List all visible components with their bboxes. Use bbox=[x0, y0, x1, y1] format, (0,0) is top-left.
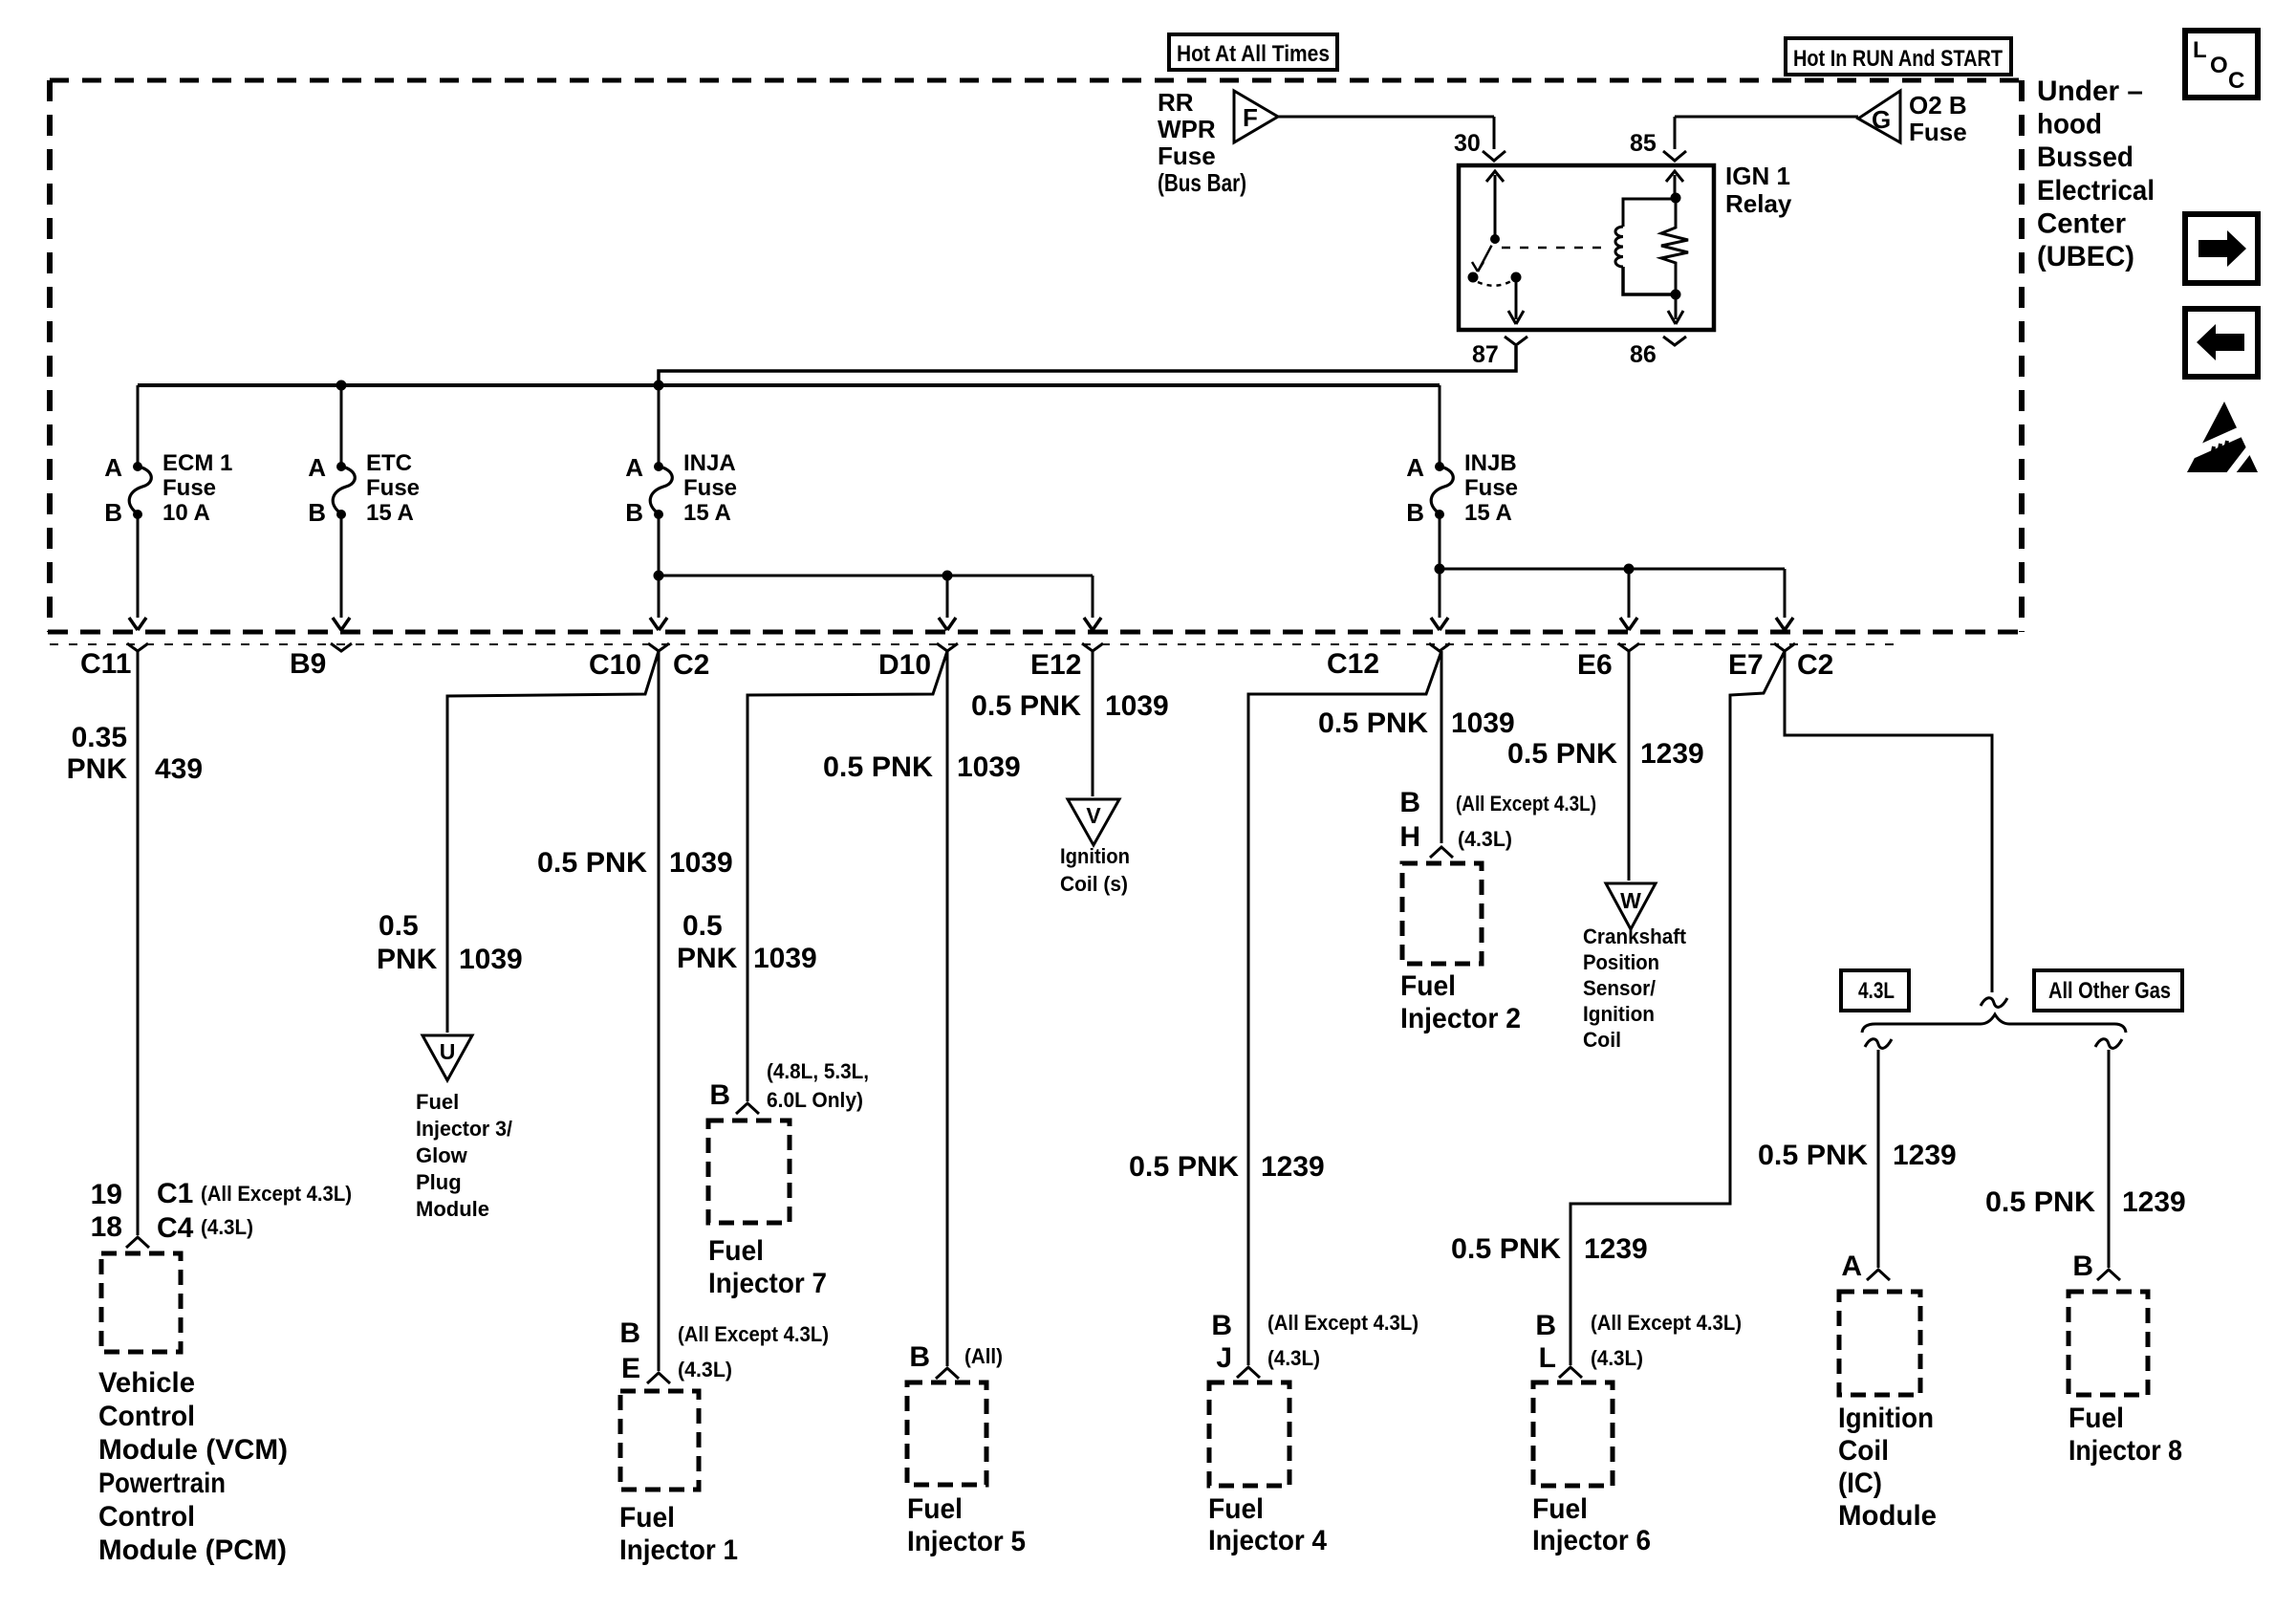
svg-text:Ignition: Ignition bbox=[1060, 844, 1130, 868]
svg-text:E: E bbox=[621, 1353, 640, 1384]
svg-text:G: G bbox=[1872, 105, 1891, 134]
svg-text:15 A: 15 A bbox=[683, 500, 731, 526]
svg-text:W: W bbox=[1620, 888, 1641, 913]
svg-text:18: 18 bbox=[91, 1211, 122, 1243]
svg-text:ETC: ETC bbox=[366, 450, 412, 476]
svg-text:10 A: 10 A bbox=[162, 500, 210, 526]
svg-text:1239: 1239 bbox=[1261, 1151, 1325, 1183]
svg-text:Fuel: Fuel bbox=[619, 1502, 675, 1534]
svg-text:Module (PCM): Module (PCM) bbox=[98, 1534, 287, 1566]
svg-text:Under –: Under – bbox=[2037, 76, 2143, 107]
svg-text:Coil (s): Coil (s) bbox=[1060, 872, 1128, 896]
svg-text:IGN 1: IGN 1 bbox=[1725, 162, 1790, 190]
svg-text:Plug: Plug bbox=[416, 1170, 462, 1194]
svg-text:Injector 4: Injector 4 bbox=[1208, 1525, 1327, 1556]
svg-text:U: U bbox=[440, 1039, 456, 1064]
svg-text:C12: C12 bbox=[1327, 648, 1379, 680]
svg-text:C2: C2 bbox=[1797, 649, 1833, 681]
svg-text:Injector 6: Injector 6 bbox=[1532, 1525, 1651, 1556]
svg-text:0.5: 0.5 bbox=[682, 910, 723, 942]
svg-text:PNK: PNK bbox=[377, 944, 438, 975]
svg-text:(Bus Bar): (Bus Bar) bbox=[1158, 168, 1246, 197]
svg-text:Fuel: Fuel bbox=[708, 1235, 764, 1267]
svg-text:0.5 PNK: 0.5 PNK bbox=[1129, 1151, 1239, 1183]
svg-text:Fuse: Fuse bbox=[1909, 118, 1967, 146]
svg-text:Fuel: Fuel bbox=[1400, 970, 1456, 1002]
svg-text:A: A bbox=[625, 453, 643, 482]
svg-text:19: 19 bbox=[91, 1179, 122, 1210]
svg-text:Glow: Glow bbox=[416, 1143, 468, 1167]
svg-text:439: 439 bbox=[155, 753, 203, 785]
svg-text:Fuel: Fuel bbox=[416, 1090, 459, 1114]
svg-text:B: B bbox=[625, 498, 643, 527]
svg-text:B: B bbox=[709, 1079, 730, 1111]
svg-text:1039: 1039 bbox=[957, 751, 1021, 783]
svg-text:85: 85 bbox=[1630, 130, 1657, 157]
svg-text:hood: hood bbox=[2037, 109, 2102, 141]
svg-text:0.5 PNK: 0.5 PNK bbox=[1318, 707, 1428, 739]
svg-text:(4.3L): (4.3L) bbox=[1458, 827, 1512, 851]
svg-text:A: A bbox=[104, 453, 122, 482]
svg-text:Fuse: Fuse bbox=[366, 475, 420, 501]
svg-text:PNK: PNK bbox=[677, 943, 738, 974]
svg-text:L: L bbox=[1539, 1342, 1556, 1374]
svg-text:Vehicle: Vehicle bbox=[98, 1367, 195, 1399]
svg-text:Coil: Coil bbox=[1583, 1028, 1621, 1052]
svg-text:(4.3L): (4.3L) bbox=[201, 1215, 253, 1239]
svg-text:C11: C11 bbox=[80, 648, 131, 680]
svg-text:30: 30 bbox=[1454, 130, 1481, 157]
svg-text:E12: E12 bbox=[1030, 649, 1081, 681]
svg-text:(All Except 4.3L): (All Except 4.3L) bbox=[678, 1322, 829, 1346]
svg-text:B: B bbox=[619, 1317, 640, 1349]
svg-text:J: J bbox=[1216, 1342, 1232, 1374]
svg-text:0.5 PNK: 0.5 PNK bbox=[1507, 738, 1617, 770]
svg-text:Fuse: Fuse bbox=[1158, 141, 1216, 170]
svg-text:Position: Position bbox=[1583, 950, 1659, 974]
svg-text:0.5 PNK: 0.5 PNK bbox=[1451, 1233, 1561, 1265]
svg-text:87: 87 bbox=[1472, 341, 1499, 368]
svg-text:RR: RR bbox=[1158, 88, 1194, 117]
svg-text:Fuel: Fuel bbox=[1532, 1493, 1588, 1525]
svg-text:F: F bbox=[1243, 103, 1258, 132]
svg-text:Electrical: Electrical bbox=[2037, 175, 2155, 207]
svg-text:C10: C10 bbox=[589, 649, 641, 681]
svg-text:1039: 1039 bbox=[753, 943, 817, 974]
svg-text:INJB: INJB bbox=[1464, 450, 1517, 476]
svg-text:B: B bbox=[1211, 1310, 1232, 1341]
svg-text:A: A bbox=[1841, 1251, 1862, 1282]
svg-text:Fuse: Fuse bbox=[683, 475, 737, 501]
svg-text:1239: 1239 bbox=[2122, 1186, 2186, 1218]
svg-text:1039: 1039 bbox=[459, 944, 523, 975]
svg-text:Injector 7: Injector 7 bbox=[708, 1268, 827, 1299]
svg-text:Injector 5: Injector 5 bbox=[907, 1526, 1026, 1557]
svg-text:6.0L Only): 6.0L Only) bbox=[767, 1088, 863, 1112]
svg-text:Relay: Relay bbox=[1725, 189, 1792, 218]
svg-text:B: B bbox=[909, 1341, 930, 1373]
svg-text:(All Except 4.3L): (All Except 4.3L) bbox=[1267, 1311, 1419, 1335]
svg-text:C: C bbox=[2228, 68, 2244, 94]
svg-text:A: A bbox=[1406, 453, 1424, 482]
svg-text:1239: 1239 bbox=[1893, 1140, 1957, 1171]
svg-text:B: B bbox=[104, 498, 122, 527]
svg-text:15 A: 15 A bbox=[1464, 500, 1512, 526]
svg-text:Injector 1: Injector 1 bbox=[619, 1534, 738, 1566]
svg-text:V: V bbox=[1086, 803, 1101, 828]
svg-text:O: O bbox=[2210, 53, 2228, 78]
svg-text:86: 86 bbox=[1630, 341, 1657, 368]
svg-text:1239: 1239 bbox=[1640, 738, 1704, 770]
svg-text:Fuse: Fuse bbox=[162, 475, 216, 501]
svg-text:A: A bbox=[308, 453, 326, 482]
svg-text:15 A: 15 A bbox=[366, 500, 414, 526]
svg-text:0.5 PNK: 0.5 PNK bbox=[537, 847, 647, 879]
svg-text:Ignition: Ignition bbox=[1838, 1403, 1934, 1434]
svg-text:ECM 1: ECM 1 bbox=[162, 450, 232, 476]
svg-text:Fuse: Fuse bbox=[1464, 475, 1518, 501]
svg-text:C2: C2 bbox=[673, 649, 709, 681]
svg-text:Module: Module bbox=[1838, 1500, 1937, 1532]
svg-text:B: B bbox=[1399, 787, 1420, 818]
svg-text:(UBEC): (UBEC) bbox=[2037, 241, 2134, 272]
svg-text:Fuel: Fuel bbox=[907, 1493, 963, 1525]
svg-text:0.5 PNK: 0.5 PNK bbox=[971, 690, 1081, 722]
svg-text:Module: Module bbox=[416, 1197, 489, 1221]
svg-text:Injector 8: Injector 8 bbox=[2069, 1435, 2182, 1467]
svg-text:H: H bbox=[1399, 821, 1420, 853]
svg-text:Ignition: Ignition bbox=[1583, 1002, 1655, 1026]
svg-text:B: B bbox=[1406, 498, 1424, 527]
svg-text:Fuel: Fuel bbox=[2069, 1403, 2124, 1434]
svg-text:PNK: PNK bbox=[67, 753, 128, 785]
svg-text:Control: Control bbox=[98, 1401, 195, 1432]
svg-text:Hot In RUN And START: Hot In RUN And START bbox=[1793, 46, 2003, 72]
svg-text:4.3L: 4.3L bbox=[1858, 978, 1895, 1004]
svg-text:Sensor/: Sensor/ bbox=[1583, 976, 1656, 1000]
svg-text:C4: C4 bbox=[157, 1212, 194, 1244]
svg-text:B9: B9 bbox=[290, 648, 326, 680]
svg-text:0.5 PNK: 0.5 PNK bbox=[823, 751, 933, 783]
svg-text:All Other Gas: All Other Gas bbox=[2048, 978, 2171, 1004]
svg-text:Module (VCM): Module (VCM) bbox=[98, 1434, 288, 1466]
svg-text:Control: Control bbox=[98, 1501, 195, 1533]
svg-text:B: B bbox=[2072, 1251, 2093, 1282]
svg-text:(4.3L): (4.3L) bbox=[1591, 1346, 1643, 1370]
svg-text:INJA: INJA bbox=[683, 450, 736, 476]
svg-text:E6: E6 bbox=[1577, 649, 1613, 681]
svg-text:Center: Center bbox=[2037, 207, 2126, 239]
svg-text:Injector 2: Injector 2 bbox=[1400, 1003, 1521, 1034]
svg-text:B: B bbox=[1535, 1310, 1556, 1341]
svg-text:Injector 3/: Injector 3/ bbox=[416, 1117, 512, 1141]
svg-text:Crankshaft: Crankshaft bbox=[1583, 925, 1687, 948]
svg-text:B: B bbox=[308, 498, 326, 527]
svg-text:(4.3L): (4.3L) bbox=[1267, 1346, 1320, 1370]
svg-text:Fuel: Fuel bbox=[1208, 1493, 1264, 1525]
svg-text:C1: C1 bbox=[157, 1178, 193, 1209]
svg-text:(4.8L, 5.3L,: (4.8L, 5.3L, bbox=[767, 1059, 869, 1083]
svg-text:E7: E7 bbox=[1728, 649, 1764, 681]
svg-text:0.5 PNK: 0.5 PNK bbox=[1985, 1186, 2095, 1218]
svg-text:O2 B: O2 B bbox=[1909, 91, 1967, 120]
svg-text:(4.3L): (4.3L) bbox=[678, 1358, 732, 1382]
svg-text:(All Except 4.3L): (All Except 4.3L) bbox=[1591, 1311, 1742, 1335]
svg-text:0.5: 0.5 bbox=[379, 910, 419, 942]
svg-text:Hot At All Times: Hot At All Times bbox=[1177, 41, 1330, 67]
svg-text:0.35: 0.35 bbox=[72, 722, 127, 753]
svg-text:1239: 1239 bbox=[1584, 1233, 1648, 1265]
svg-text:1039: 1039 bbox=[669, 847, 733, 879]
svg-text:(All): (All) bbox=[964, 1344, 1003, 1368]
svg-text:1039: 1039 bbox=[1451, 707, 1515, 739]
svg-text:0.5 PNK: 0.5 PNK bbox=[1758, 1140, 1868, 1171]
svg-text:Powertrain: Powertrain bbox=[98, 1468, 226, 1499]
svg-text:(IC): (IC) bbox=[1838, 1468, 1882, 1499]
svg-text:WPR: WPR bbox=[1158, 115, 1216, 143]
svg-text:(All Except 4.3L): (All Except 4.3L) bbox=[1456, 792, 1596, 816]
svg-text:Bussed: Bussed bbox=[2037, 141, 2134, 173]
svg-text:(All Except 4.3L): (All Except 4.3L) bbox=[201, 1182, 352, 1206]
svg-text:Coil: Coil bbox=[1838, 1435, 1889, 1467]
svg-text:1039: 1039 bbox=[1105, 690, 1169, 722]
svg-text:D10: D10 bbox=[878, 649, 931, 681]
svg-text:L: L bbox=[2193, 37, 2207, 63]
